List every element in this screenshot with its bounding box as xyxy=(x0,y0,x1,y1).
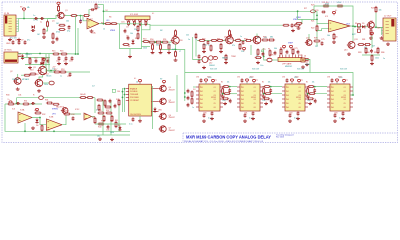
svg-text:10k: 10k xyxy=(312,82,315,84)
VCC Q1 xyxy=(57,2,60,6)
svg-text:C1 1u: C1 1u xyxy=(33,20,38,22)
svg-text:VDD 15V: VDD 15V xyxy=(297,69,305,71)
wire pin drop 4 xyxy=(146,23,148,25)
svg-text:100k: 100k xyxy=(110,132,114,134)
resistor R13b xyxy=(29,73,36,75)
wire stage link2 307.7 xyxy=(308,93,327,95)
svg-text:IN3: IN3 xyxy=(331,95,334,97)
resistor R1c xyxy=(43,28,45,35)
ground stage 263.7 xyxy=(262,94,266,97)
svg-text:C92: C92 xyxy=(282,77,285,79)
svg-text:O2: O2 xyxy=(254,91,256,93)
wire compander row xyxy=(197,39,253,41)
op-amp IC3C xyxy=(84,113,92,120)
junction xyxy=(53,130,55,132)
svg-text:O6: O6 xyxy=(344,107,346,109)
junction xyxy=(316,15,318,17)
resistor R21 xyxy=(316,25,318,32)
wire Q11 down xyxy=(250,45,252,55)
capacitor stage b 222.7 xyxy=(229,99,232,103)
svg-text:C34: C34 xyxy=(71,114,74,116)
svg-text:C15: C15 xyxy=(67,76,70,78)
ground loop xyxy=(128,55,132,58)
wire bias divider xyxy=(75,16,77,54)
transistor Q7 xyxy=(159,126,167,132)
svg-text:IN4: IN4 xyxy=(241,99,244,101)
svg-text:1: 1 xyxy=(201,86,202,88)
svg-text:GAIN: GAIN xyxy=(305,63,310,66)
ground R66 xyxy=(219,50,223,53)
capacitor C1 xyxy=(34,17,38,20)
resistor R1d xyxy=(52,32,54,39)
wire to Q1 base xyxy=(48,18,56,20)
svg-text:O2: O2 xyxy=(299,91,301,93)
IC6 pins xyxy=(280,55,302,58)
svg-text:IN5: IN5 xyxy=(286,103,289,105)
op-amp IC1A xyxy=(87,18,99,29)
svg-text:D2: D2 xyxy=(19,55,21,57)
wire op-amp out xyxy=(99,23,120,25)
svg-text:P1: P1 xyxy=(268,49,270,51)
svg-text:Q1: Q1 xyxy=(52,21,55,23)
svg-text:R50: R50 xyxy=(150,39,153,41)
svg-text:IN6: IN6 xyxy=(331,107,334,109)
resistor R53 xyxy=(152,43,154,50)
resistor R8 xyxy=(137,32,139,39)
wire vcc mix drop xyxy=(371,36,373,48)
wire R13 stub xyxy=(21,74,24,76)
resistor R26 xyxy=(370,29,372,36)
svg-text:R15: R15 xyxy=(52,51,55,53)
wire Q8 emitter xyxy=(175,44,177,49)
ground R72b xyxy=(256,61,260,64)
IC8 left pins xyxy=(237,87,240,107)
svg-text:2N5087: 2N5087 xyxy=(169,117,175,119)
svg-text:IN5: IN5 xyxy=(200,103,203,105)
polarity mark xyxy=(230,34,232,36)
svg-text:IN2: IN2 xyxy=(200,91,203,93)
svg-text:O4: O4 xyxy=(254,99,256,101)
photocell ring xyxy=(39,96,44,100)
junction xyxy=(103,10,105,12)
svg-text:TP1: TP1 xyxy=(299,55,302,57)
VCC reg xyxy=(42,58,45,62)
capacitor stage 222.7 xyxy=(228,88,231,92)
svg-text:R18: R18 xyxy=(61,69,64,71)
svg-text:R45: R45 xyxy=(116,99,119,101)
ground op-amp xyxy=(332,40,336,43)
VCC IC9 a xyxy=(290,79,293,83)
resistor R66 xyxy=(220,43,222,50)
svg-text:IN6: IN6 xyxy=(286,107,289,109)
svg-text:O6: O6 xyxy=(299,107,301,109)
BBD IC10 V3205SD xyxy=(330,84,350,111)
svg-text:V+: V+ xyxy=(8,99,10,101)
svg-text:O5: O5 xyxy=(344,103,346,105)
svg-text:C40: C40 xyxy=(117,91,120,93)
wire riser a xyxy=(45,54,47,72)
ground IC10 xyxy=(333,119,337,122)
junction xyxy=(24,130,26,132)
output jack J2 xyxy=(383,18,396,41)
IC4 right pins xyxy=(152,89,159,112)
junction xyxy=(184,92,186,94)
capacitor C87 xyxy=(187,103,190,107)
resistor R38 xyxy=(103,115,105,122)
resistor R43 xyxy=(86,97,93,99)
wire feedback top xyxy=(314,6,353,27)
svg-text:D1: D1 xyxy=(128,46,130,48)
wire vcc stub a xyxy=(246,83,248,84)
diode D7 xyxy=(118,126,121,132)
wire vcc stub a xyxy=(291,83,293,84)
svg-text:R8: R8 xyxy=(135,38,137,40)
resistor R6 xyxy=(110,23,117,25)
diode D4 xyxy=(32,25,35,28)
svg-text:SPEED: SPEED xyxy=(52,109,59,111)
capacitor b below IC8 xyxy=(252,111,255,115)
resistor R85 xyxy=(371,54,373,61)
resistor R13 xyxy=(23,74,30,76)
ground b IC9 xyxy=(296,117,300,120)
IC7 right pins xyxy=(220,87,223,107)
capacitor C76 xyxy=(291,23,294,27)
svg-text:C10: C10 xyxy=(34,58,37,60)
capacitor C73 xyxy=(297,50,300,54)
ground R68 xyxy=(224,61,228,64)
svg-text:R20: R20 xyxy=(311,5,314,7)
VCC IC8 a xyxy=(245,79,248,83)
wire clock drop xyxy=(193,37,202,60)
wire R1b down xyxy=(46,27,48,31)
svg-text:O4: O4 xyxy=(214,99,216,101)
svg-text:C90: C90 xyxy=(222,100,225,102)
junction xyxy=(307,93,309,95)
capacitor C5 xyxy=(124,29,127,33)
wire vcc drop xyxy=(23,12,25,19)
resistor R6a xyxy=(95,3,97,10)
svg-text:R41: R41 xyxy=(115,120,118,122)
svg-text:10k: 10k xyxy=(66,21,69,23)
capacitor b below IC10 xyxy=(342,111,345,115)
wire grid riser d xyxy=(118,104,120,131)
svg-text:Q12: Q12 xyxy=(306,38,310,40)
capacitor C37 xyxy=(114,104,117,108)
capacitor C12 xyxy=(58,56,61,60)
resistor R70 xyxy=(261,39,268,41)
wire elbow riser xyxy=(103,5,105,24)
ground stage 222.7 xyxy=(221,94,225,97)
wire net VDD rail xyxy=(185,73,353,96)
capacitor bypass IC8 xyxy=(244,113,247,117)
svg-text:470k: 470k xyxy=(337,2,341,4)
capacitor C6 xyxy=(127,36,130,40)
capacitor vdd IC10 xyxy=(331,78,334,82)
wire input stub 2 xyxy=(317,29,329,31)
svg-text:VDD 15V: VDD 15V xyxy=(210,69,218,71)
capacitor stage b 263.7 xyxy=(270,99,273,103)
svg-text:R83: R83 xyxy=(358,52,361,54)
junction xyxy=(229,86,231,88)
trimpot TP1 xyxy=(301,58,305,62)
input jack J1 xyxy=(4,15,16,36)
svg-text:V3205: V3205 xyxy=(251,97,256,99)
wire net VB rail xyxy=(150,24,283,26)
svg-text:C14: C14 xyxy=(69,61,72,63)
capacitor C30 xyxy=(16,102,20,105)
svg-text:C33: C33 xyxy=(34,110,37,112)
svg-text:LED: LED xyxy=(158,110,162,112)
resistor R58 xyxy=(195,33,197,39)
resistor R55 xyxy=(175,29,177,36)
svg-text:IN3: IN3 xyxy=(286,95,289,97)
ground mix xyxy=(370,62,374,65)
capacitor C3 xyxy=(79,19,82,23)
capacitor vdd IC8 xyxy=(241,78,244,82)
trimpot P3 xyxy=(49,81,54,85)
wire into LPF xyxy=(272,59,278,61)
resistor R40 xyxy=(97,123,104,125)
svg-text:470k: 470k xyxy=(56,32,60,34)
transistor Q12 xyxy=(305,40,312,46)
wire stage link 263.7 xyxy=(263,86,282,88)
resistor R83 xyxy=(365,47,367,54)
svg-text:IN6: IN6 xyxy=(200,107,203,109)
capacitor C63 xyxy=(198,59,201,63)
wire vcc stub a xyxy=(336,83,338,84)
svg-text:IN3: IN3 xyxy=(241,95,244,97)
ground mod 2 xyxy=(110,138,114,141)
ground R53 xyxy=(151,51,155,54)
ground R54 xyxy=(159,51,163,54)
capacitor stage b 307.7 xyxy=(314,99,317,103)
VCC delay chip xyxy=(138,80,141,84)
svg-text:10k: 10k xyxy=(168,45,171,47)
op-amp IC5B xyxy=(329,20,351,32)
svg-text:IN4: IN4 xyxy=(331,99,334,101)
svg-text:1: 1 xyxy=(332,86,333,88)
resistor R45 xyxy=(118,99,120,106)
svg-text:IC3: IC3 xyxy=(12,109,15,111)
ground R1c xyxy=(42,35,46,38)
svg-text:C91: C91 xyxy=(262,100,265,102)
svg-text:D6: D6 xyxy=(36,125,38,127)
svg-text:R13: R13 xyxy=(30,70,33,72)
wire LFO bottom rail xyxy=(5,104,130,131)
ground mod xyxy=(98,137,102,140)
wire mod feed xyxy=(184,73,186,102)
resistor R57 xyxy=(168,43,170,50)
svg-text:0.1u: 0.1u xyxy=(294,118,298,120)
svg-text:1: 1 xyxy=(280,56,281,58)
resistor R51 xyxy=(155,41,162,43)
svg-text:R25: R25 xyxy=(377,28,380,30)
junction xyxy=(354,26,356,28)
svg-text:O3: O3 xyxy=(214,95,216,97)
wire stage link2 222.7 xyxy=(223,93,237,95)
svg-text:10k: 10k xyxy=(268,82,271,84)
wire IC4 gnd stub xyxy=(139,116,141,119)
svg-text:PEDALSCHEMATICS. CO-D=-2009 +R: PEDALSCHEMATICS. CO-D=-2009 +REV-5/9 POW… xyxy=(184,140,264,143)
svg-text:22p: 22p xyxy=(134,29,137,31)
capacitor C71 xyxy=(274,51,277,55)
resistor R77 xyxy=(302,59,309,61)
ground IC4 xyxy=(138,119,142,122)
ground IC1A xyxy=(90,29,94,32)
svg-text:1u: 1u xyxy=(40,22,42,24)
junction xyxy=(122,91,124,93)
transistor Q4 xyxy=(159,85,167,91)
resistor R20c xyxy=(336,5,343,7)
svg-text:1k: 1k xyxy=(103,29,105,31)
svg-text:R81: R81 xyxy=(362,39,365,41)
ground C76 xyxy=(291,29,295,32)
resistor stage a 263.7 xyxy=(263,86,270,88)
svg-text:16: 16 xyxy=(304,56,306,58)
IC4 pin names xyxy=(130,87,140,102)
svg-text:C6: C6 xyxy=(126,36,128,38)
svg-text:O2: O2 xyxy=(214,91,216,93)
svg-text:R86: R86 xyxy=(381,52,384,54)
junction xyxy=(50,70,52,72)
resistor R42 xyxy=(79,97,86,99)
jack J2 pins xyxy=(386,22,389,34)
ground stage b 263.7 xyxy=(264,102,268,105)
transistor Q1 xyxy=(57,12,65,18)
IC10 right pin names xyxy=(344,87,346,109)
transistor Q5 xyxy=(159,98,167,104)
wire drop IC3A xyxy=(24,123,26,131)
resistor R62v xyxy=(229,29,231,36)
svg-text:NE570: NE570 xyxy=(222,58,228,60)
transistor Q9 xyxy=(225,36,234,44)
svg-text:C81: C81 xyxy=(244,113,247,115)
wire filter bottom xyxy=(25,64,50,66)
svg-text:R84: R84 xyxy=(366,52,369,54)
svg-text:R78: R78 xyxy=(314,38,317,40)
wire grid riser c xyxy=(110,100,112,135)
svg-text:IN5: IN5 xyxy=(241,103,244,105)
diode D3 zener xyxy=(40,62,43,65)
transistor Q13 xyxy=(347,42,355,49)
wire rail joint xyxy=(142,24,151,30)
svg-text:IN5: IN5 xyxy=(331,103,334,105)
VCC mix xyxy=(370,32,373,36)
resistor R60 xyxy=(198,39,205,41)
svg-text:ENABLE: ENABLE xyxy=(130,87,138,90)
svg-text:R92: R92 xyxy=(307,87,310,89)
wire clock loop xyxy=(120,24,142,49)
svg-text:C73: C73 xyxy=(294,48,297,50)
wire LED drive xyxy=(176,75,178,112)
wire clock drop b xyxy=(195,40,197,57)
IC7 left pins xyxy=(196,87,199,107)
resistor RP1 xyxy=(128,20,130,26)
wire input stub xyxy=(317,23,329,25)
ground filter 2 xyxy=(41,66,45,69)
svg-text:1n: 1n xyxy=(256,55,258,57)
ground R64 xyxy=(202,50,206,53)
resistor stage a 307.7 xyxy=(307,86,314,88)
svg-text:D7: D7 xyxy=(118,125,120,127)
wire LFO out xyxy=(62,114,81,125)
svg-text:R7: R7 xyxy=(139,25,141,27)
resistor R5 xyxy=(104,23,111,25)
resistor R71 xyxy=(268,39,275,41)
svg-text:R40: R40 xyxy=(98,127,101,129)
svg-text:IC3A: IC3A xyxy=(20,109,25,112)
capacitor C31 xyxy=(31,102,35,105)
ground input jack xyxy=(8,38,12,41)
junction xyxy=(23,18,25,20)
svg-text:C93: C93 xyxy=(327,77,330,79)
svg-text:Q10: Q10 xyxy=(212,57,216,59)
junction xyxy=(263,93,265,95)
net flag C40 xyxy=(112,89,115,92)
wire 9V feed xyxy=(18,53,48,55)
ground stage b 222.7 xyxy=(223,102,227,105)
resistor R68 xyxy=(225,54,227,61)
ground Q7 xyxy=(369,36,373,39)
wire rail drop xyxy=(316,11,318,46)
resistor R44 xyxy=(96,99,103,101)
resistor stage d 263.7 xyxy=(263,98,270,100)
ground stage 307.7 xyxy=(306,94,310,97)
resistor RP2 xyxy=(133,20,135,26)
transistor Q11 xyxy=(252,36,261,44)
svg-text:R11: R11 xyxy=(28,58,31,60)
capacitor C7 xyxy=(12,40,15,44)
capacitor C18 xyxy=(56,37,59,41)
wire to trimpot xyxy=(264,57,267,60)
svg-text:R85: R85 xyxy=(374,52,377,54)
resistor R17 xyxy=(53,71,60,73)
VCC transistor stack xyxy=(162,80,165,84)
svg-text:22k: 22k xyxy=(241,51,244,53)
wire mod row xyxy=(95,123,126,125)
transistor Q14 photocell xyxy=(61,108,68,114)
svg-text:C20: C20 xyxy=(315,10,318,12)
wire LPF out xyxy=(303,60,310,73)
resistor R23 xyxy=(333,33,335,40)
wire pin drop 1 xyxy=(129,23,131,24)
svg-text:IN6: IN6 xyxy=(241,107,244,109)
resistor stage a 222.7 xyxy=(222,86,229,88)
wire bias divider 2 xyxy=(77,28,79,54)
svg-text:IN2: IN2 xyxy=(286,91,289,93)
resistor R48 xyxy=(98,104,100,111)
svg-text:C61: C61 xyxy=(237,39,240,41)
svg-text:2k: 2k xyxy=(195,39,197,41)
resistor R5a xyxy=(83,15,90,17)
resistor R61 xyxy=(210,39,217,41)
wire to P3 xyxy=(43,82,49,84)
svg-text:R30: R30 xyxy=(24,101,27,103)
IC8 right pins xyxy=(260,87,263,107)
svg-text:Q11: Q11 xyxy=(253,38,256,40)
resistor R12 xyxy=(42,57,44,64)
svg-text:47k: 47k xyxy=(232,45,235,47)
svg-text:R1: R1 xyxy=(221,82,223,84)
wire stage link 307.7 xyxy=(308,86,327,88)
resistor R1 xyxy=(58,5,60,12)
capacitor C8 xyxy=(18,40,21,44)
wire IC3C out xyxy=(92,116,96,118)
svg-text:C8: C8 xyxy=(15,40,17,42)
IC10 left pins xyxy=(327,87,330,107)
svg-text:2N5087: 2N5087 xyxy=(169,89,175,91)
svg-text:50k: 50k xyxy=(274,48,277,50)
